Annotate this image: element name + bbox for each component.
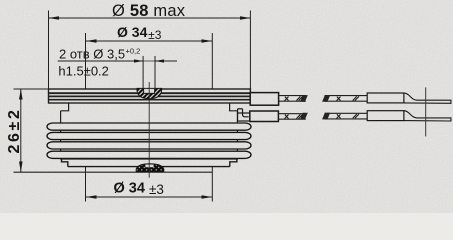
dimension Ø34+3 top: dim line	[86, 40, 213, 42]
lower lead: crimp barrel	[250, 111, 279, 122]
dimension Ø58 max: right arrow	[240, 16, 250, 20]
upper lead: crimp barrel at disc edge	[250, 93, 278, 106]
dimension Ø3.5: left extension line (hole wall)	[142, 56, 144, 89]
terminal 2 (lower right): wire	[325, 113, 368, 119]
dimension 26±2: bottom extension line merged with pedestal bottom surface	[14, 171, 213, 173]
upper lead: wire cut end	[300, 95, 308, 102]
lower lead: wire cut end	[300, 113, 308, 120]
top center hole recess (hatched bowl)	[137, 88, 162, 98]
dimension Ø58 max: left extension line	[48, 11, 50, 89]
device body: bottom flange step 1	[62, 159, 237, 167]
dimension Ø58 max: left arrow	[49, 16, 60, 20]
dimension Ø58 max: dim line	[49, 17, 251, 19]
dimension Ø34 top: right extension line	[211, 33, 213, 89]
device body: top pole disc outline	[49, 89, 251, 103]
lower lead: wire	[278, 114, 305, 120]
dimension Ø34 top: right arrow	[202, 39, 213, 43]
upper lead: crimp mark 1	[285, 97, 289, 101]
dimension Ø34 bottom: left arrow	[86, 195, 97, 199]
terminal 1: crimp mark 2	[353, 96, 359, 100]
dimension Ø34 bottom: left extension line	[85, 167, 87, 202]
terminal 1: crimp mark 1	[337, 97, 341, 101]
reference vertical line across terminals	[425, 87, 427, 136]
dimension Ø34 bottom: right extension line	[211, 167, 213, 202]
terminal 1: wire start end	[322, 95, 330, 102]
terminal 2: crimp mark 2	[353, 114, 359, 118]
lower lead: crimp mark 2	[296, 114, 302, 118]
dimension 26±2: bottom arrow	[19, 162, 23, 173]
terminal 2: flat blade with s-bend	[404, 111, 451, 121]
dimension 26±2: vertical dim line	[20, 89, 22, 172]
device body: left side wall segments	[61, 111, 238, 160]
lower lead: crimp mark 1	[285, 115, 289, 119]
dimension Ø34 top: left arrow	[86, 39, 97, 43]
device vertical centerline	[148, 82, 150, 178]
dimension 2 holes Ø3.5: leader underline and dim line with inward arrows	[58, 60, 177, 62]
dimension Ø58 max: right extension line	[249, 11, 251, 93]
rib fin 1	[47, 123, 251, 130]
rib fin 3	[47, 142, 251, 149]
terminal 2: crimp mark 1	[337, 114, 341, 118]
rib fin 2	[47, 132, 251, 139]
upper lead: crimp mark 2	[296, 96, 302, 100]
dimension Ø34±3 bottom: dim line	[86, 196, 213, 198]
terminal 2: crimp barrel	[367, 111, 404, 121]
device body: neck below top disc	[61, 103, 238, 111]
rib fin 4	[47, 151, 251, 158]
dimension Ø3.5: left inward arrow	[134, 59, 143, 62]
terminal 2: wire start end	[322, 113, 330, 120]
bottom center hole recess (hatched dome)	[136, 164, 164, 172]
dimension 26±2: top arrow	[19, 89, 23, 100]
terminal 1 (upper right): wire	[325, 96, 368, 102]
terminal 1: flat blade with s-bend	[404, 93, 451, 103]
dimension Ø34 bottom: right arrow	[202, 195, 213, 199]
dimension Ø3.5: right inward arrow	[155, 59, 164, 62]
gate lead clip on housing	[238, 109, 250, 121]
dimension Ø34 top: left extension line	[85, 33, 87, 89]
terminal 1: crimp barrel	[367, 93, 404, 103]
upper lead: wire	[279, 96, 306, 102]
dimension Ø3.5: right extension line (hole wall)	[154, 56, 156, 89]
dimension 26±2: top extension line	[14, 88, 49, 90]
